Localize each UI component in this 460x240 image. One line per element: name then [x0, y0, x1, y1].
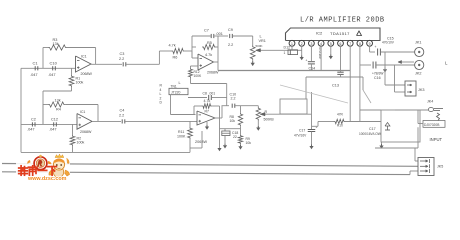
wire out stage4: [220, 117, 223, 119]
ground R9: [240, 144, 242, 146]
resistor R12: [190, 66, 192, 68]
wire to JK5 pin1: [414, 148, 416, 161]
op-amp IC1B stage3: [77, 114, 92, 130]
wire pin3 to C14: [310, 46, 312, 61]
connector JK3: [405, 81, 416, 96]
svg-text:4.7k: 4.7k: [205, 53, 212, 57]
wire C9 to VR1: [233, 35, 253, 37]
svg-text:10k: 10k: [230, 119, 236, 123]
rail A: [218, 70, 350, 72]
svg-text:TN1: TN1: [171, 85, 177, 89]
svg-text:R11: R11: [178, 130, 184, 134]
capacitor C17a: [308, 129, 316, 131]
svg-text:470/10V: 470/10V: [382, 41, 395, 45]
ground C17 main: [381, 142, 383, 145]
wire R5 loop left: [191, 47, 193, 58]
wire C15 to JK1: [381, 51, 415, 53]
ground C17a: [309, 146, 313, 149]
svg-text:INPUT: INPUT: [430, 137, 443, 142]
svg-text:C16: C16: [374, 76, 381, 80]
wire pin7 down: [349, 46, 351, 122]
wire railB stub: [362, 77, 364, 90]
svg-text:C4: C4: [120, 109, 125, 113]
wire DJ left: [417, 110, 419, 124]
capacitor C3: [122, 62, 124, 66]
wire C7 loop left: [191, 36, 193, 47]
resistor R9: [238, 135, 242, 145]
ground C18: [223, 145, 227, 148]
watermark chinese text: [19, 167, 28, 169]
svg-text:8: 8: [359, 42, 361, 46]
svg-text:.001: .001: [209, 92, 216, 96]
wire R4 to out: [65, 104, 98, 106]
capacitor C4: [121, 119, 123, 123]
wire to C9: [218, 35, 228, 37]
wire R11 down: [189, 139, 191, 148]
wire wiper route: [311, 92, 313, 129]
wiper pot: [264, 113, 312, 115]
op-amp IC2B stage4: [197, 111, 215, 125]
svg-text:2.2: 2.2: [228, 43, 233, 47]
resistor R1: [71, 68, 73, 75]
wire R4 tap: [42, 105, 44, 125]
svg-text:4.7k: 4.7k: [204, 99, 211, 103]
diag line D1: [280, 85, 348, 103]
svg-text:JT220: JT220: [171, 91, 181, 95]
capacitor C14: [308, 61, 315, 63]
box DJ07020B: [423, 121, 445, 128]
resistor R5: [202, 44, 216, 49]
svg-text:VR1: VR1: [259, 39, 266, 43]
svg-text:TDA1517: TDA1517: [330, 31, 350, 36]
svg-text:10k: 10k: [246, 141, 252, 145]
resistor R6: [171, 48, 184, 53]
wiper VR1: [260, 49, 302, 51]
capacitor C10: [52, 66, 54, 70]
capacitor C10b: [231, 104, 233, 108]
svg-text:2.2: 2.2: [119, 57, 124, 61]
svg-text:.047: .047: [48, 72, 56, 77]
wire R8 to R9: [240, 126, 242, 134]
wire R2 down: [72, 146, 74, 152]
svg-text:JK5: JK5: [437, 165, 443, 169]
box C17 main: [381, 110, 420, 142]
resistor R11: [189, 121, 191, 127]
wire R7 loop right: [212, 105, 219, 107]
svg-text:47R: 47R: [337, 113, 344, 117]
svg-text:L: L: [179, 81, 181, 85]
svg-text:IC1: IC1: [81, 54, 87, 58]
svg-text:5: 5: [330, 42, 332, 46]
capacitor C17 flag: [385, 123, 390, 127]
svg-text:R7: R7: [205, 109, 209, 113]
svg-text:4.7k: 4.7k: [169, 44, 176, 48]
svg-text:100k: 100k: [76, 81, 84, 85]
svg-text:DJ07020B: DJ07020B: [424, 123, 440, 127]
wire stage1 out: [91, 63, 122, 65]
svg-text:C3: C3: [120, 52, 125, 56]
svg-text:100k: 100k: [77, 141, 85, 145]
capacitor C13: [340, 71, 342, 72]
watermark emblem: [27, 160, 30, 164]
op-amp IC2A stage2: [198, 54, 214, 70]
svg-text:+7B/3W: +7B/3W: [372, 72, 383, 76]
svg-text:2.2: 2.2: [231, 97, 236, 101]
svg-text:C12: C12: [51, 117, 58, 121]
svg-text:D: D: [160, 101, 163, 105]
svg-text:9: 9: [369, 42, 371, 46]
wire R1 return: [71, 87, 73, 91]
svg-text:.047: .047: [27, 127, 35, 132]
svg-text:C10: C10: [50, 60, 58, 65]
wire pin5 gnd: [330, 46, 332, 56]
wire C4 to opamp4: [125, 120, 197, 122]
wire opamp2 plus to R12: [191, 65, 199, 67]
svg-text:500KB: 500KB: [264, 118, 275, 122]
svg-text:D12: D12: [284, 46, 291, 50]
capacitor C15: [377, 49, 379, 56]
wire JK4 feed: [395, 109, 428, 111]
svg-text:6: 6: [340, 42, 342, 46]
resistor R10: [334, 119, 346, 123]
wire R10 to box: [346, 121, 382, 123]
svg-text:2068W: 2068W: [81, 72, 93, 76]
svg-text:100K: 100K: [194, 74, 203, 78]
svg-text:47V/16V: 47V/16V: [294, 134, 307, 138]
capacitor C2: [31, 122, 33, 126]
svg-text:R10: R10: [337, 124, 343, 128]
svg-text:C17: C17: [299, 129, 305, 133]
wire stage3 out: [92, 120, 121, 122]
wire TN1 to minus: [170, 95, 172, 115]
wire R3 tap: [42, 48, 44, 69]
svg-text:.001: .001: [216, 32, 223, 36]
svg-text:2068W: 2068W: [207, 71, 219, 75]
wire DJ bottom: [417, 127, 419, 148]
svg-text:13k: 13k: [55, 98, 61, 102]
wire box top left: [360, 109, 381, 111]
svg-text:13k: 13k: [53, 42, 59, 46]
pot VR1: [250, 46, 255, 61]
svg-text:IC1: IC1: [80, 110, 85, 114]
svg-text:2: 2: [301, 42, 303, 46]
capacitor C16: [372, 62, 374, 69]
svg-text:100K: 100K: [177, 135, 186, 139]
wire bottom y152: [21, 151, 190, 153]
wire pin1 to D12: [291, 46, 293, 50]
wire input top: [21, 67, 76, 69]
svg-text:2068W: 2068W: [195, 140, 207, 144]
svg-text:C14: C14: [309, 66, 316, 70]
wire R5 loop right: [216, 46, 218, 48]
IC2 pins 1-9: [289, 40, 295, 46]
arrow jack pin: [398, 61, 414, 63]
wire jog to R10: [312, 125, 319, 127]
svg-text:C17: C17: [369, 127, 376, 131]
fuse zigzag: [437, 113, 440, 121]
svg-text:R4: R4: [56, 107, 61, 111]
JK5 pins: [420, 160, 428, 162]
wire C7 loop right: [215, 35, 219, 37]
svg-text:C9: C9: [228, 28, 233, 32]
wire step R11: [189, 148, 191, 152]
svg-text:+: +: [306, 59, 308, 63]
resistor R8: [240, 106, 242, 113]
wire TN1 to C8: [188, 97, 207, 99]
wire C16 to JK2: [376, 64, 415, 66]
connector JK5: [418, 158, 434, 176]
ground op-amp4: [206, 122, 208, 127]
watermark mascot: [53, 167, 63, 178]
wire pin9 to C15: [370, 51, 375, 53]
connector JK2: [415, 60, 424, 69]
wire left input vertical: [20, 68, 22, 152]
wire JK3 feed2: [394, 65, 396, 92]
svg-text:JK1: JK1: [415, 41, 422, 45]
svg-text:C13: C13: [332, 84, 339, 88]
svg-text:JK4: JK4: [427, 100, 433, 104]
wire pin2 gnd: [301, 46, 303, 57]
transformer TN1: [169, 88, 188, 94]
svg-text:1: 1: [284, 51, 286, 55]
capacitor C12: [53, 122, 55, 126]
symbol triangle warn: [357, 31, 362, 36]
svg-text:1: 1: [291, 42, 293, 46]
bus line 2: [2, 164, 418, 167]
svg-text:R5: R5: [207, 41, 212, 45]
svg-text:.047: .047: [30, 72, 38, 77]
ground VR1: [252, 60, 254, 63]
wire pin8 down: [359, 46, 361, 122]
diode D12: [288, 50, 298, 55]
wire pin9 down: [369, 46, 371, 52]
big wire box: [280, 99, 307, 114]
svg-text:22: 22: [233, 135, 237, 139]
svg-text:L: L: [260, 34, 263, 39]
wire JK3 feed1: [384, 52, 386, 85]
svg-text:4: 4: [320, 42, 322, 46]
wire vert x226: [226, 84, 228, 106]
connector JK4: [428, 108, 433, 112]
pot R volume: [257, 106, 259, 107]
resistor R2: [72, 124, 74, 135]
svg-text:R6: R6: [173, 56, 178, 60]
wire R3 to out: [67, 47, 96, 49]
capacitor C7: [210, 34, 212, 38]
svg-text:www.dzsc.com: www.dzsc.com: [27, 176, 67, 182]
ground under JK2 wire: [384, 67, 386, 69]
wire input lower: [21, 123, 78, 125]
capacitor C9: [229, 34, 231, 38]
svg-text:C8: C8: [203, 92, 207, 96]
svg-text:2.2: 2.2: [119, 114, 124, 118]
wire R6 to opamp2: [185, 50, 192, 52]
ground pot: [257, 121, 259, 128]
svg-text:IC2: IC2: [316, 31, 323, 36]
resistor R3: [48, 45, 67, 50]
wire pin4 down: [320, 46, 322, 71]
svg-text:+: +: [375, 45, 377, 49]
rail A stub: [217, 62, 219, 71]
capacitor C18: [224, 129, 226, 131]
svg-text:JK2: JK2: [415, 72, 422, 76]
resistor R4: [48, 102, 65, 107]
svg-text:JK3: JK3: [418, 88, 425, 92]
wire R7 loop left: [193, 106, 195, 115]
wire minus node: [192, 57, 198, 59]
svg-text:.047: .047: [49, 127, 57, 132]
wire C3 to R6: [126, 63, 159, 65]
capacitor C1: [34, 66, 36, 70]
wire C10 to pot: [235, 105, 258, 107]
svg-text:C2: C2: [31, 117, 36, 121]
svg-text:1000/16V/LOW: 1000/16V/LOW: [359, 132, 381, 136]
rail B: [306, 76, 363, 78]
watermark white halo: [16, 163, 70, 183]
wire pin8 to C16: [360, 64, 371, 66]
svg-text:500K: 500K: [256, 44, 263, 48]
svg-text:7: 7: [349, 42, 351, 46]
op-amp IC1 stage1: [76, 56, 92, 72]
wire y148 seg: [190, 147, 202, 149]
bus line 3: [2, 172, 410, 175]
resistor R7: [202, 104, 213, 109]
svg-text:L: L: [445, 61, 448, 66]
wire pin6 down: [340, 46, 342, 71]
diag line D2: [363, 90, 371, 103]
svg-text:3: 3: [310, 42, 312, 46]
svg-text:L/R AMPLIFIER 20DB: L/R AMPLIFIER 20DB: [300, 17, 385, 25]
connector JK1: [415, 47, 424, 56]
svg-text:C1: C1: [33, 60, 39, 65]
svg-text:C7: C7: [204, 29, 209, 33]
IC U2 TDA1517 body: [286, 28, 381, 41]
svg-text:2068W: 2068W: [80, 130, 92, 134]
